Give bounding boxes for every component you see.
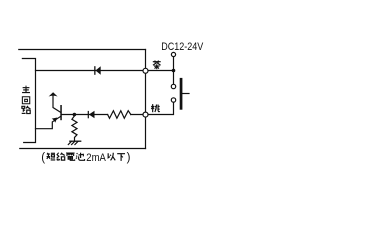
wire: pink line right segment (resistor to terminal) [131,114,146,116]
diode D2 (on pink line, cathode left) [88,111,89,118]
transistor Q1 collector lead [53,96,61,113]
resistor R1 (horizontal) [108,111,131,119]
wire: left vertical bus x=145.3 (through 茶/桃 terminals) [145,50,147,149]
ground [70,140,81,142]
wire: DC terminal drop [173,55,175,87]
label: 主回路 (vertical) [22,86,30,93]
wire: bottom rail [20,148,146,150]
label: 桃 [151,104,160,112]
svg-text:DC12-24V: DC12-24V [161,41,204,53]
svg-text:(: ( [41,152,45,164]
wire: pink line left segment (transistor base to resistor) [62,114,108,116]
wire: lower contact to pink terminal [146,100,174,115]
diode D1 (on brown line, cathode left) [94,66,95,75]
transistor Q1 collector arrow (up) [49,92,58,96]
wire: top rail [19,49,146,51]
main-circuit box (open left) [22,59,35,143]
svg-text:): ) [127,152,131,164]
transistor Q1 emitter lead [36,116,61,128]
junction dot J1 [172,69,176,73]
switch contact upper [171,84,175,88]
terminal circle: DC supply [171,52,175,56]
switch stem [182,93,189,95]
junction dot J2 [73,113,77,117]
resistor R2 (vertical, to ground) [72,115,77,142]
switch bar [180,78,183,110]
wire: brown line y=70.8 from box to junction J1 [36,70,174,72]
label: 茶 [153,60,161,69]
svg-text:2mA: 2mA [86,152,106,164]
transistor Q1 emitter arrow (PNP, toward bar) [52,118,58,123]
switch contact lower [171,98,175,102]
terminal circle: brown (茶) [143,68,148,73]
transistor Q1 bar [60,105,62,120]
terminal circle: pink (桃) [143,112,148,117]
